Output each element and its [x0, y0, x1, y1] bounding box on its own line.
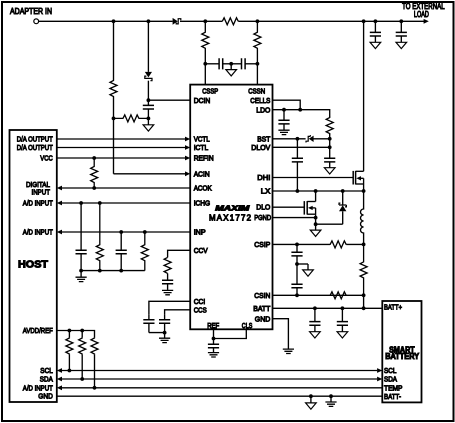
svg-text:LX: LX	[261, 187, 271, 196]
junction BATT C18	[341, 306, 345, 310]
wire comp caps join	[149, 332, 165, 334]
wire R15 to SDA	[81, 354, 83, 379]
junction top rail A (x113)	[112, 19, 116, 23]
junction top rail C1	[374, 19, 378, 23]
wire R2 to node ACIN	[113, 97, 115, 118]
op-amp U1 MAX1772 box	[190, 85, 272, 330]
wire D2 anode to node	[313, 138, 329, 140]
svg-text:BATTERY: BATTERY	[385, 352, 420, 361]
wire ICHG	[62, 202, 190, 204]
capacitor C5 (CSSN filter)	[231, 58, 257, 69]
ground CCV comp	[162, 290, 173, 295]
svg-text:ICTL: ICTL	[194, 143, 209, 152]
junction comp ground	[163, 331, 167, 335]
arrow into host SCL	[57, 368, 62, 373]
wire CSSP node to IC top	[204, 64, 206, 85]
SMART BATTERY box	[382, 301, 421, 402]
svg-text:BATT-: BATT-	[384, 392, 401, 401]
resistor R5 (CSSN filter)	[254, 31, 261, 50]
wire REFIN	[57, 157, 185, 159]
wire top rail to Q1 drain	[363, 21, 365, 171]
wire top rail segment 3	[238, 20, 424, 22]
capacitor C13 (bootstrap)	[292, 139, 303, 191]
junction ICHG cap	[79, 201, 83, 205]
wire x113 top to R2	[113, 21, 115, 80]
svg-text:LOAD: LOAD	[414, 10, 429, 19]
ground LDO cap	[278, 130, 289, 135]
svg-text:DHI: DHI	[257, 173, 270, 182]
junction CSIP node	[362, 243, 366, 247]
wire CCS to C10	[165, 310, 191, 315]
ground U1 GND	[283, 349, 294, 354]
diode D2 (BST bootstrap)	[306, 135, 314, 142]
resistor R6 (ACOK pull-up)	[91, 158, 98, 188]
wire CSSN node to IC top	[256, 64, 258, 85]
junction CSIN cap	[295, 293, 299, 297]
arrow into VCTL	[185, 137, 190, 142]
resistor R9 (CCV comp)	[164, 257, 171, 273]
svg-text:CSIP: CSIP	[254, 240, 270, 249]
ground power stage	[310, 224, 321, 236]
capacitor C3 (DCIN bypass)	[143, 100, 154, 118]
wire Q2 source to PGND	[315, 214, 317, 217]
ground under C3	[143, 118, 154, 131]
ground under C1	[370, 42, 381, 48]
svg-text:CSSN: CSSN	[248, 86, 265, 95]
junction CSIN node	[362, 293, 366, 297]
wire node x113 down	[113, 118, 115, 173]
transistor Q1 (high-side NMOS)	[353, 171, 363, 191]
junction BATT node	[362, 306, 366, 310]
junction DCIN cap bottom	[147, 117, 151, 121]
junction PGND gnd	[314, 222, 318, 226]
capacitor C18 (BATT bypass)	[337, 308, 348, 331]
junction CSSN node	[256, 62, 260, 66]
ground under filter caps	[226, 64, 237, 76]
wire CSIN	[273, 294, 364, 296]
ground BATT- A	[306, 396, 317, 409]
wire D3 anode return	[316, 223, 343, 225]
wire VCTL	[57, 138, 185, 140]
resistor R16 (TEMP pull-up)	[91, 338, 98, 355]
resistor R8 (INP divider)	[141, 232, 148, 271]
ground BATT- B	[325, 396, 336, 406]
wire R16 to TEMP	[94, 354, 96, 388]
junction INP cap	[119, 230, 123, 234]
junction CSIP cap	[295, 243, 299, 247]
capacitor C15 (CSIP filter)	[291, 244, 302, 264]
capacitor C16 (CSIN filter)	[291, 264, 302, 295]
ground DLOV cap	[324, 168, 335, 174]
junction top rail CSSP	[203, 19, 207, 23]
svg-text:DLOV: DLOV	[251, 143, 271, 152]
svg-text:REF: REF	[207, 321, 219, 330]
capacitor C17 (BATT bypass)	[309, 308, 320, 331]
junction LX inductor	[362, 189, 366, 193]
resistor R12 (current sense)	[360, 244, 367, 295]
wire PGND node down	[315, 218, 317, 225]
wire CSSP junction to R4	[204, 21, 206, 31]
arrow into host DIGITAL INPUT	[57, 186, 62, 191]
svg-text:ACOK: ACOK	[194, 184, 212, 193]
wire REF stub	[213, 329, 215, 338]
capacitor C6 (ICHG filter)	[76, 203, 87, 271]
wire DLO	[273, 206, 305, 208]
wire R4 to CSSP node	[204, 50, 206, 64]
resistor R1 (CSSP-CSSN sense)	[222, 18, 238, 25]
capacitor C4 (CSSP filter)	[205, 58, 231, 69]
svg-text:CSIN: CSIN	[254, 291, 270, 300]
junction LX bootstrap cap	[296, 189, 300, 193]
wire INP	[62, 231, 190, 233]
svg-text:DLO: DLO	[256, 203, 270, 212]
junction TEMP pull-up	[93, 386, 97, 390]
wire R10 to BST node	[329, 133, 331, 139]
resistor R13 (CSIN filter)	[330, 292, 346, 299]
capacitor C11 (REF bypass)	[208, 339, 219, 353]
capacitor C1 (adapter output)	[370, 21, 381, 42]
wire CCI to C9	[149, 301, 190, 314]
junction bus C7	[119, 269, 123, 273]
junction BATT C17	[313, 306, 317, 310]
HOST box	[10, 130, 57, 402]
junction AVDD R15	[80, 329, 84, 333]
wire cap mid to gnd	[297, 263, 308, 265]
resistor R15 (SDA pull-up)	[79, 338, 86, 355]
svg-text:ADAPTER IN: ADAPTER IN	[10, 6, 52, 16]
wire LDO	[273, 110, 330, 118]
svg-text:MAXIM: MAXIM	[215, 203, 250, 212]
svg-text:MAX1772: MAX1772	[209, 213, 251, 222]
junction AVDD R14	[68, 329, 72, 333]
svg-text:CLS: CLS	[242, 321, 253, 330]
resistor R4 (CSSP filter)	[202, 31, 209, 50]
wire PGND	[273, 217, 316, 219]
ground CCI/CCS comp	[159, 333, 170, 343]
svg-text:ICHG: ICHG	[194, 199, 211, 208]
zener diode Z1 (DCIN clamp)	[145, 72, 152, 81]
junction top rail C2	[399, 19, 403, 23]
capacitor C14 (DLOV bypass)	[324, 139, 335, 168]
junction BST-R10	[328, 137, 332, 141]
wire x148 top to zener	[147, 21, 149, 72]
wire zener to DCIN node	[147, 81, 149, 101]
wire ACIN horizontal	[114, 173, 186, 175]
svg-text:D/A OUTPUT: D/A OUTPUT	[17, 143, 53, 152]
capacitor C2 (adapter output)	[396, 21, 407, 42]
wire BATT	[273, 307, 383, 309]
wire TEMP	[62, 387, 382, 389]
capacitor C7 (INP filter)	[116, 232, 127, 271]
ground CSIP filter	[303, 264, 314, 276]
wire ICTL	[57, 147, 185, 149]
ground analog bus	[76, 271, 87, 282]
wire DCIN to IC	[148, 99, 190, 101]
wire CELLS	[273, 100, 301, 110]
resistor R14 (SCL pull-up)	[66, 338, 73, 355]
wire CCV to R9	[168, 250, 191, 257]
svg-text:PGND: PGND	[254, 213, 271, 222]
resistor R3 (ACIN to DCIN)	[114, 115, 149, 122]
wire CSSN junction to R5	[256, 21, 258, 31]
svg-text:SDA: SDA	[40, 375, 54, 384]
junction ICHG res	[98, 201, 102, 205]
svg-text:LDO: LDO	[256, 105, 270, 114]
junction ACOK pull-up bottom	[92, 186, 96, 190]
wire DHI	[273, 177, 353, 179]
junction LX D3	[341, 189, 345, 193]
capacitor C9 (CCI comp)	[143, 314, 154, 332]
wire LX	[273, 190, 364, 192]
wire analog bus	[81, 270, 145, 272]
wire ACOK	[62, 187, 190, 189]
ground under C2	[396, 42, 407, 48]
svg-text:A/D INPUT: A/D INPUT	[23, 199, 53, 208]
capacitor C12 (LDO bypass)	[278, 110, 289, 130]
arrow into ACIN	[185, 171, 190, 176]
inductor L1	[361, 191, 364, 244]
wire top rail segment 1	[39, 20, 173, 22]
wire AVDD to R14	[68, 331, 70, 338]
junction SDA pull-up	[80, 377, 84, 381]
transistor Q2 (low-side NMOS)	[304, 201, 315, 215]
wire AVDD/REF	[57, 331, 95, 338]
capacitor C8 (CCV comp)	[162, 273, 173, 290]
junction CELLS-LDO	[298, 108, 302, 112]
resistor R2 (ACIN divider top)	[110, 80, 117, 97]
svg-text:SDA: SDA	[384, 375, 398, 384]
diode D3 (catch Schottky)	[339, 191, 346, 224]
resistor R10 (LDO to BST)	[326, 118, 333, 134]
junction BATT- gnd A	[309, 394, 313, 398]
junction LDO cap	[282, 108, 286, 112]
junction bus C6	[79, 269, 83, 273]
junction PGND Q2	[314, 216, 318, 220]
svg-text:INP: INP	[194, 228, 206, 237]
diode D1 (Schottky, input)	[173, 18, 181, 25]
svg-text:HOST: HOST	[18, 260, 48, 271]
wire R5 to CSSN node	[256, 50, 258, 64]
junction bus R7	[98, 269, 102, 273]
arrow into ICTL	[185, 145, 190, 150]
junction DLOV	[328, 145, 332, 149]
arrow to external load	[424, 19, 429, 24]
wire R11 to node	[346, 243, 363, 245]
arrow into host TEMP	[57, 385, 62, 390]
arrow into battery SCL	[377, 368, 382, 373]
wire R14 to SCL	[68, 354, 70, 370]
wire BST	[273, 138, 306, 140]
wire GND/BATT-	[57, 395, 383, 397]
terminal ADAPTER IN	[34, 19, 39, 24]
ground REF cap	[208, 352, 219, 357]
junction top rail Q1 drain	[362, 19, 366, 23]
resistor R7 (ICHG divider)	[96, 203, 103, 271]
ground C18	[337, 332, 348, 338]
junction node x113	[112, 117, 116, 121]
arrow into host SDA	[57, 377, 62, 382]
svg-text:GND: GND	[255, 314, 271, 323]
wire SDA	[62, 378, 377, 380]
wire CSIP	[273, 243, 331, 245]
svg-text:INPUT: INPUT	[32, 188, 51, 197]
junction DCIN node	[147, 98, 151, 102]
svg-text:BATT+: BATT+	[384, 302, 402, 311]
svg-text:REFIN: REFIN	[194, 154, 214, 163]
wire AVDD to R15	[81, 331, 83, 338]
junction CSIP caps mid	[295, 262, 299, 266]
resistor R11 (CSIP filter)	[330, 241, 346, 248]
arrow into REFIN	[185, 156, 190, 161]
arrow into host A/D INPUT 2	[57, 230, 62, 235]
junction BATT- gnd B	[329, 394, 333, 398]
arrow into battery SDA	[377, 377, 382, 382]
arrow into host A/D INPUT 1	[57, 201, 62, 206]
junction BST cap	[296, 137, 300, 141]
wire SCL	[62, 370, 377, 372]
capacitor C10 (CCS comp)	[159, 314, 170, 332]
wire Q2 drain to LX	[315, 191, 317, 202]
junction SCL pull-up	[68, 369, 72, 373]
svg-text:CCS: CCS	[194, 305, 207, 314]
svg-text:ACIN: ACIN	[194, 169, 210, 178]
junction top rail CSSN	[256, 19, 260, 23]
junction filter cap mid	[229, 62, 233, 66]
svg-text:AVDD/REF: AVDD/REF	[23, 326, 53, 335]
svg-text:A/D INPUT: A/D INPUT	[23, 228, 53, 237]
junction REF node	[212, 337, 216, 341]
junction top rail B (x148)	[147, 19, 151, 23]
wire top rail segment 2	[180, 20, 222, 22]
svg-text:DCIN: DCIN	[194, 96, 211, 105]
svg-text:GND: GND	[38, 392, 53, 401]
svg-text:CSSP: CSSP	[202, 86, 218, 95]
svg-text:BATT: BATT	[253, 304, 270, 313]
svg-text:VCC: VCC	[40, 154, 53, 163]
junction INP res	[143, 230, 147, 234]
ground C17	[310, 332, 321, 338]
junction LX Q2 drain	[314, 189, 318, 193]
junction VCC pull-up top	[92, 156, 96, 160]
svg-text:CELLS: CELLS	[250, 96, 270, 105]
wire REF to CLS	[214, 329, 247, 338]
wire GND pin	[273, 319, 289, 349]
wire DLOV	[273, 146, 330, 148]
wire CSIN node to BATT	[363, 295, 365, 308]
junction CSSP node	[203, 62, 207, 66]
svg-text:CCV: CCV	[194, 246, 209, 255]
